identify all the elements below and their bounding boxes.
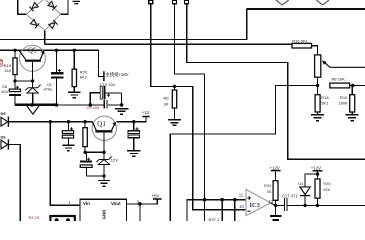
svg-text:+12V: +12V [311,165,321,170]
terminal pin square P1 [149,1,153,4]
wire H1 node row to op-amp pin11 [187,200,246,221]
ground under R10 [346,115,359,121]
svg-text:3K: 3K [164,102,169,107]
svg-text:510: 510 [5,68,12,73]
svg-text:R18: R18 [321,95,329,100]
svg-text:R16 5K1: R16 5K1 [292,38,308,43]
node dot +12V split [316,172,319,175]
node dot rail12 Vin drop [49,120,52,123]
op-amp plus sign [247,196,251,200]
svg-text:R8 10K: R8 10K [332,77,346,82]
wire bus2 from bridge output to R16 [45,43,292,45]
terminal +12 bar [142,116,149,118]
svg-text:12V: 12V [111,158,118,163]
diode V glyph top right b [316,0,329,5]
wire zener2 to ground [103,165,105,181]
wire Vin drop to regulator [50,122,80,206]
diode D4 [300,187,310,206]
svg-text:D4: D4 [298,181,304,186]
chassis arrow under gnd line [27,106,39,114]
svg-text:R3 15: R3 15 [29,215,40,220]
op-amp minus sign [247,210,250,212]
ground under C11 [127,151,140,157]
node dot R6 top [173,85,176,88]
resistor R16 [292,43,318,55]
wire Q1 base down [103,133,105,160]
svg-text:6K2: 6K2 [80,75,88,80]
terminal +5V bar [153,198,162,200]
node dot H1-a [220,198,224,202]
transistor Q6 [19,45,45,71]
transistor Q1 [92,116,116,140]
wire pin3 line to right edge via potentiometer column [187,4,365,160]
svg-text:11: 11 [239,192,244,197]
capacitor C7 [62,122,73,146]
svg-text:R37 1: R37 1 [209,217,220,221]
terminal +18V tick [103,71,105,81]
capacitor C9 [104,100,107,109]
svg-text:470u: 470u [44,87,53,92]
node dot H1-b [233,198,237,202]
ground under R20 [68,92,81,98]
terminal pin square P2 [173,1,177,4]
bridge rectifier diamond [26,0,60,30]
svg-text:13: 13 [268,199,273,204]
capacitor C10 [90,86,121,105]
wire H1-a drop [221,200,223,221]
wire pin1 sense line down and to op-amp pin10 [151,4,246,210]
svg-text:D6: D6 [1,135,7,140]
node dot rail3 R20 [73,49,76,52]
wire D6 down left edge [9,145,20,222]
svg-text:+12V: +12V [270,165,280,170]
svg-text:104: 104 [1,89,8,94]
node dot R-bias bottom [83,151,86,154]
capacitor C-ref [80,152,104,176]
svg-text:Q6: Q6 [28,46,37,54]
ground under C9 node [115,109,128,114]
resistor R-bias mid [83,122,87,153]
wire zener to ground line [32,93,34,105]
diode V glyph top right a [276,0,289,5]
thick ground line under Q6 stage [15,104,122,106]
ground under IC3 output [270,205,282,220]
node dot gnd line end [120,103,124,107]
node dot IC3 output [274,204,277,207]
wire W feedback line [170,86,317,222]
node dot gnd line C6 [55,103,59,107]
node dot pot bottom [316,84,319,87]
svg-text:C17 471: C17 471 [282,194,299,199]
svg-text:3K: 3K [267,189,272,194]
node dot gnd line zener [30,103,34,107]
node dot R19 bottom [13,79,16,82]
diode D5 [1,117,8,127]
wire rail3 +18V rail feeding Q6 stage [0,50,104,76]
svg-text:82K: 82K [323,187,330,192]
wire Q6 base down [32,62,34,88]
ground under R6 [168,120,181,126]
wire R-bias to Q1 base node [85,151,104,153]
svg-text:R34: R34 [264,183,272,188]
connector pin circles [55,218,59,222]
wire +12V node to D4 and R35 [305,172,317,187]
capacitor C6 [51,50,64,105]
svg-text:主绕组: 主绕组 [105,71,119,78]
capacitor C17 [276,198,365,211]
wire R19 bottom to Q6 base [15,80,33,82]
svg-text:C9 104: C9 104 [87,105,101,110]
op-amp IC3 triangle [246,190,271,216]
terminal +12V bar R34 [271,170,281,172]
node dot rail12 C7 [67,120,70,123]
node dot rail3 R19 [13,49,16,52]
svg-text:C10 10n: C10 10n [100,82,115,87]
regulator box U2 [80,199,127,222]
svg-text:+18V: +18V [118,72,128,77]
ground under R18 [311,115,324,121]
svg-text:+5V: +5V [152,193,160,198]
resistor R20 [72,50,76,92]
node dot rail12 R-bias [83,120,86,123]
svg-text:+12: +12 [142,110,150,115]
wire Vout drop [139,204,141,221]
wiper arrow of potentiometer [322,60,365,67]
resistor R8 [330,83,365,88]
wire pin2 line down to H1 node row [175,4,205,221]
node dot D4 bottom [303,204,306,207]
resistor R34 [273,171,278,205]
svg-text:100K: 100K [339,100,349,105]
diode bridge lower-right [49,20,58,29]
svg-text:Q1: Q1 [97,120,106,128]
wire bridge left AC lead [18,0,27,14]
wire Vout to +5V [127,200,158,204]
diode bridge upper-right [48,1,57,10]
svg-text:R35: R35 [323,181,331,186]
terminal pin square P3 [185,1,189,4]
node dot Vout [138,202,142,206]
node dot rail3 C6 [55,49,58,52]
node dot zener2 bottom [102,174,105,177]
node dot R35 bottom [316,204,319,207]
node dot R10 top [351,84,355,88]
wire bridge bottom vertex drop [44,30,46,44]
wire bus1 main horizontal with jog up at right [0,9,365,40]
diode bridge upper-left [29,2,38,11]
node dot rail12 C11 [132,120,135,123]
resistor R18 [315,95,320,115]
ground cut symbol top right of bridge [73,1,81,3]
resistor R19 [13,50,17,81]
zener ZD under Q6 [25,85,40,93]
capacitor C8 [9,81,21,105]
potentiometer RP1 [315,55,321,77]
svg-text:R10: R10 [340,95,348,100]
svg-text:GND: GND [102,209,107,220]
diode D6 [1,139,8,149]
resistor R10 [350,86,355,115]
resistor R6 [172,86,176,119]
diode bridge lower-left [30,19,39,28]
connector box J1 [50,216,74,223]
node dot gnd line C10 [89,103,93,107]
wire bridge right AC lead [61,0,69,14]
ground under C7 [62,145,74,151]
wire pot bottom to R8 and R18 [317,77,319,95]
capacitor C11 [128,122,140,151]
ground under zener2 [98,181,110,187]
svg-text:IC3: IC3 [250,202,260,209]
terminal +12V bar R35 [313,170,323,172]
node dot Q1 base ref [102,151,105,154]
svg-text:Vout: Vout [111,201,121,206]
svg-text:R6: R6 [164,96,170,101]
resistor R35 [315,179,320,206]
wire +12 rail from D5 through Q1 [9,117,146,122]
svg-text:D5: D5 [1,111,7,116]
wire H1-b drop [234,200,236,221]
zener ZD2 12V [96,157,111,165]
svg-text:Vin: Vin [83,201,90,206]
wire IC3 output to dot [271,203,276,205]
svg-text:5K1: 5K1 [321,100,329,105]
svg-text:10: 10 [239,204,244,209]
node dot H1-pin2 [203,198,207,202]
